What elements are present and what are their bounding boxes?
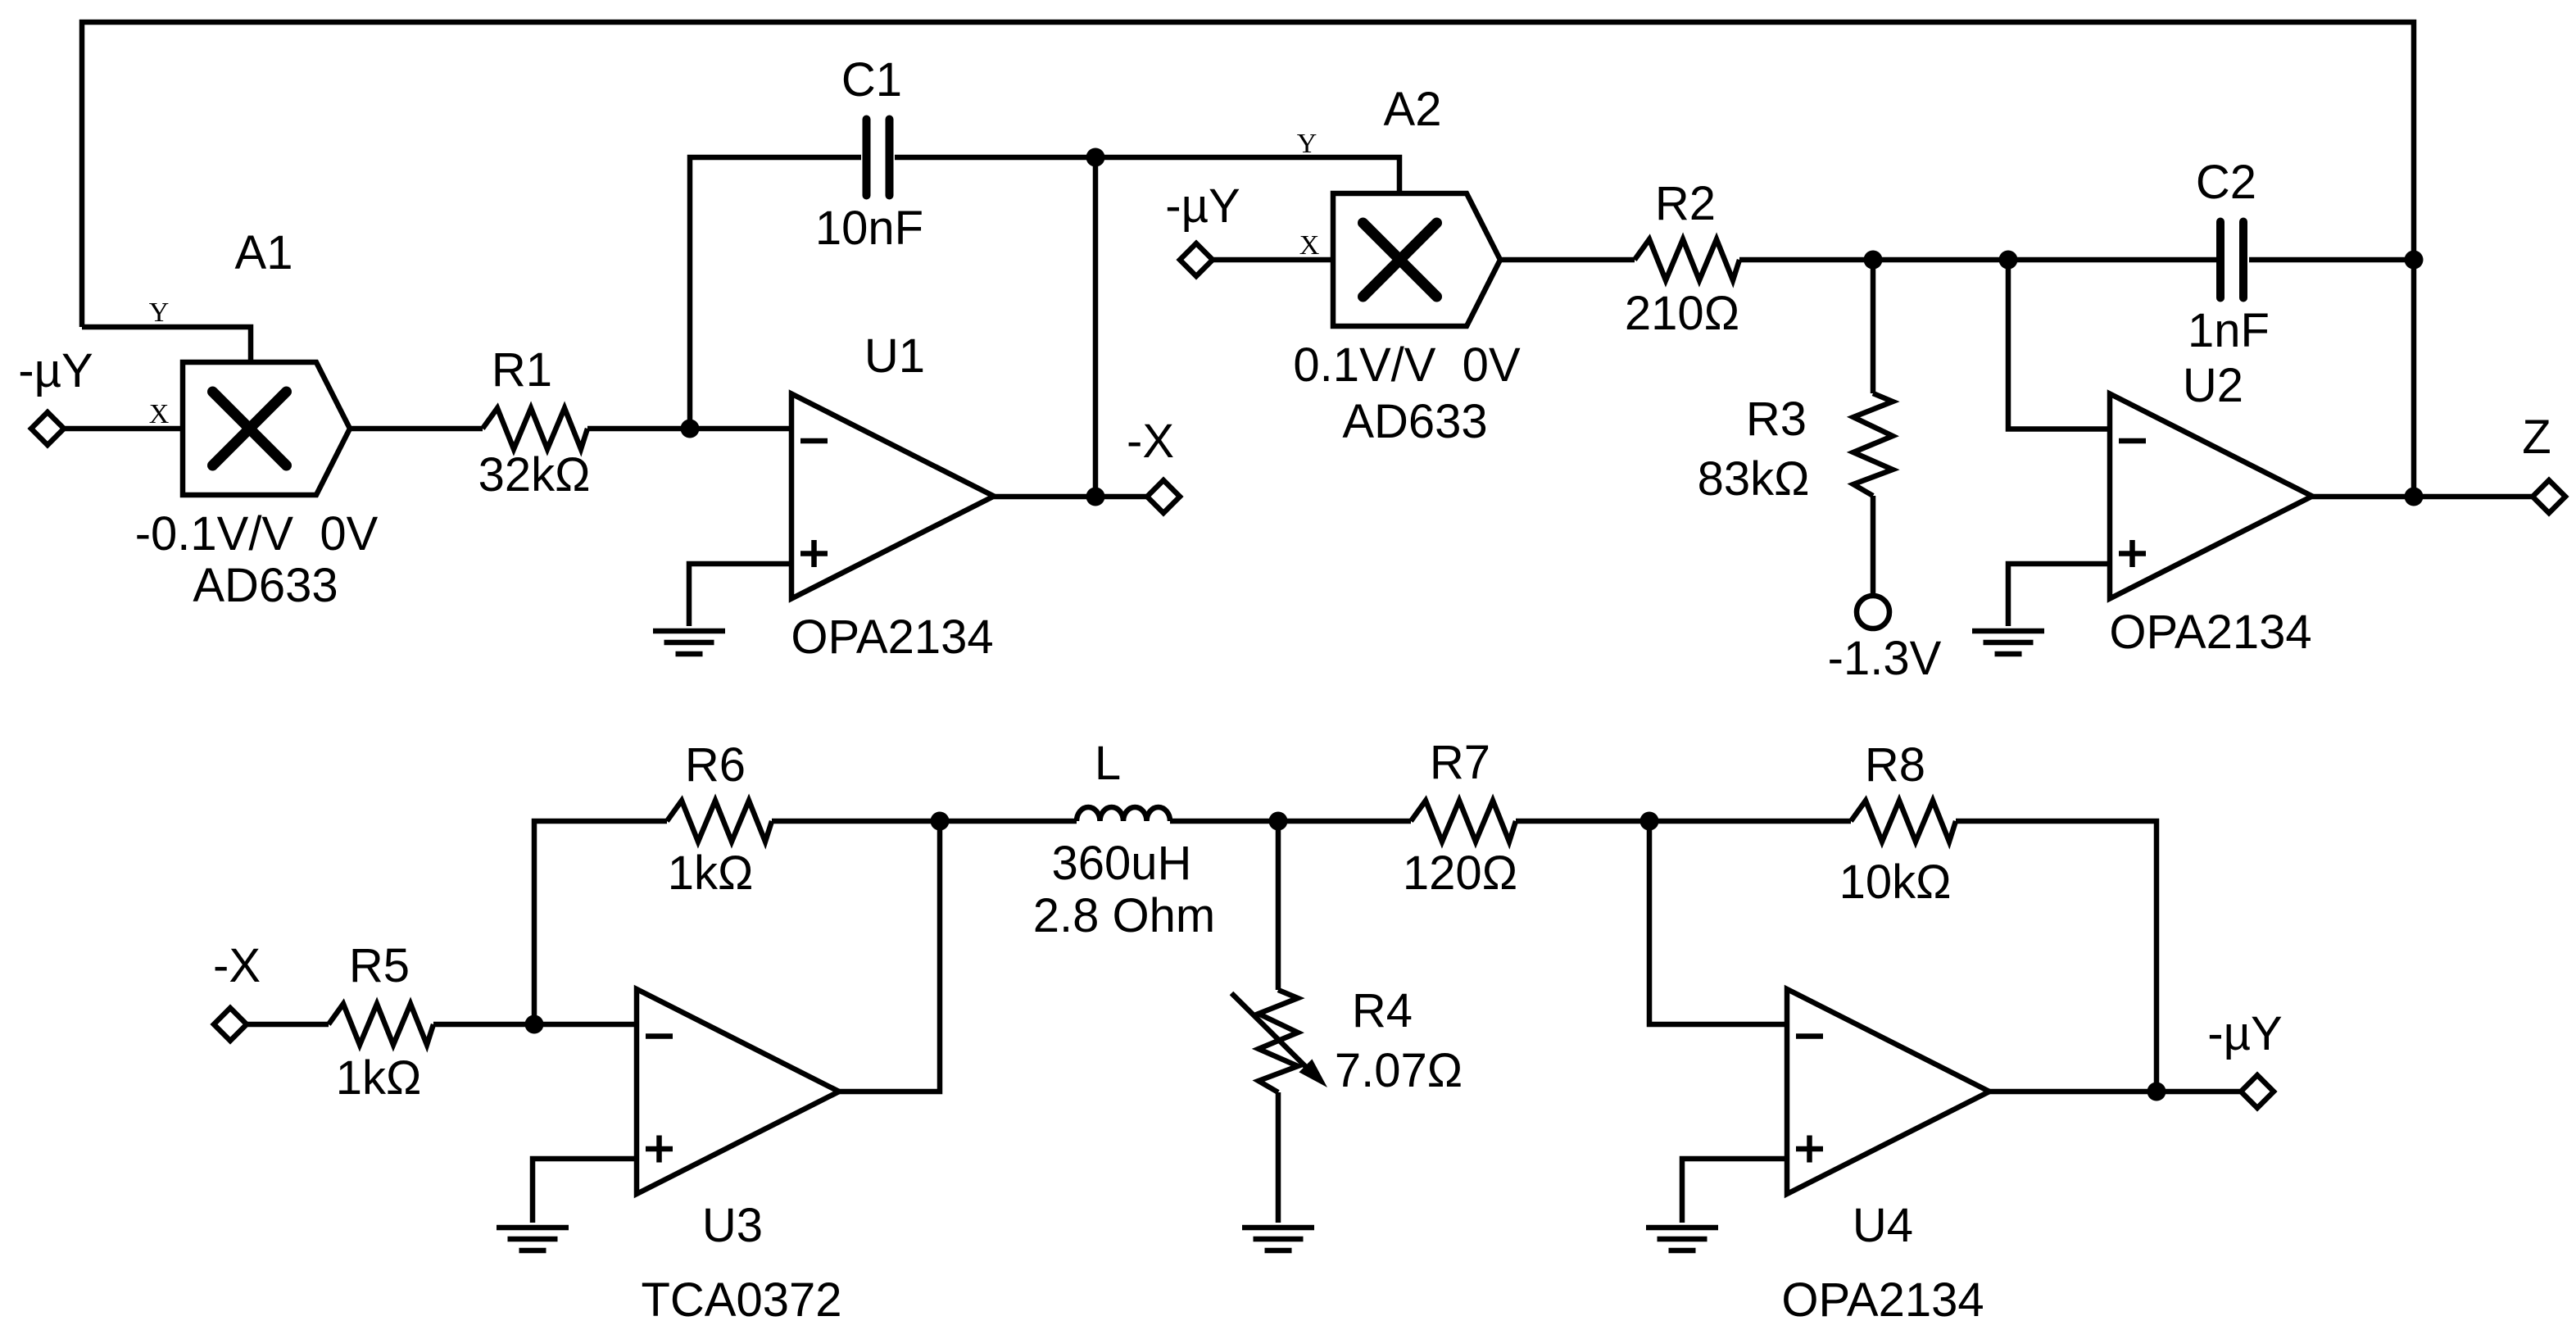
wire C2 to feedback loop — [2249, 257, 2414, 263]
svg-text:AD633: AD633 — [193, 559, 338, 612]
resistor R2 — [1635, 239, 1739, 280]
svg-text:TCA0372: TCA0372 — [641, 1273, 841, 1327]
ground (U1) — [653, 631, 725, 654]
svg-text:-X: -X — [1127, 415, 1174, 468]
junction -X node — [1086, 488, 1105, 506]
svg-text:R3: R3 — [1746, 393, 1807, 446]
wire R3 to -1.3V terminal — [1871, 496, 1876, 596]
wire A2 output — [1499, 257, 1635, 263]
svg-text:-X: -X — [213, 939, 261, 992]
junction R1/C1/U1- — [681, 420, 700, 438]
svg-text:OPA2134: OPA2134 — [2109, 606, 2311, 659]
svg-text:-1.3V: -1.3V — [1828, 632, 1942, 685]
wire C1 junction to A2 Y input — [1095, 157, 1399, 193]
op-amp U4 — [1787, 989, 1989, 1194]
op-amp U2 — [2110, 394, 2312, 599]
svg-text:C2: C2 — [2196, 156, 2256, 209]
terminal -µY (output) — [2241, 1075, 2274, 1108]
svg-text:A1: A1 — [235, 226, 293, 279]
junction -µY output node — [2147, 1083, 2166, 1101]
svg-text:83kΩ: 83kΩ — [1698, 452, 1810, 506]
wire R6 to inductor — [772, 819, 1077, 824]
variable resistor R4 — [1259, 990, 1298, 1092]
svg-text:X: X — [1299, 230, 1320, 261]
wire U3 output — [837, 821, 940, 1092]
terminal -X (input) — [214, 1008, 247, 1041]
svg-text:X: X — [149, 399, 170, 429]
svg-text:C1: C1 — [841, 53, 902, 107]
multiplier A1 — [183, 362, 350, 495]
wire R2 to C2 — [1739, 257, 2217, 263]
ground (U3) — [497, 1228, 569, 1250]
capacitor C1 — [867, 120, 890, 196]
wire C1 feedback branch (left) — [690, 157, 861, 429]
svg-text:R7: R7 — [1430, 736, 1490, 789]
resistor R3 — [1853, 393, 1893, 496]
svg-text:2.8 Ohm: 2.8 Ohm — [1033, 889, 1215, 942]
svg-text:U3: U3 — [702, 1199, 763, 1252]
svg-text:R1: R1 — [492, 343, 552, 397]
wire R8 to output node — [1956, 821, 2156, 1092]
svg-text:120Ω: 120Ω — [1403, 847, 1517, 900]
junction Z node — [2405, 488, 2424, 506]
junction U2 inverting branch — [1999, 251, 2018, 270]
wire U3 non-inverting input — [533, 1159, 637, 1223]
junction L/R4/R7 — [1269, 812, 1288, 831]
terminal -X (U1 output) — [1147, 480, 1180, 513]
wire R4 to ground — [1276, 1092, 1281, 1223]
multiplier A2 — [1333, 193, 1500, 326]
svg-text:U1: U1 — [864, 329, 925, 383]
resistor R8 — [1851, 801, 1956, 842]
svg-text:R8: R8 — [1865, 738, 1925, 792]
wire A2 X input — [1213, 257, 1333, 263]
svg-text:R6: R6 — [685, 738, 746, 792]
svg-text:AD633: AD633 — [1342, 395, 1487, 448]
wire R7 to R8 — [1516, 819, 1851, 824]
junction C1 right — [1086, 148, 1105, 167]
wire A1 output — [350, 426, 483, 432]
svg-text:R4: R4 — [1352, 984, 1413, 1037]
resistor R1 — [483, 408, 587, 449]
wire A1 Y input — [82, 327, 251, 361]
svg-text:U4: U4 — [1853, 1199, 1913, 1252]
wire U2 inverting branch — [2008, 260, 2110, 429]
svg-text:L: L — [1095, 737, 1121, 790]
wire -X to R5 — [247, 1022, 329, 1028]
wire U2 output — [2312, 494, 2533, 500]
terminal -µY (A1 input) — [31, 412, 64, 445]
wire U1 output — [994, 494, 1147, 500]
svg-text:Y: Y — [1297, 129, 1317, 159]
wire R6 feedback branch — [534, 821, 667, 1024]
resistor R5 — [329, 1004, 433, 1045]
terminal -1.3V — [1857, 596, 1889, 629]
svg-text:210Ω: 210Ω — [1625, 287, 1739, 340]
ground (U4) — [1646, 1228, 1718, 1250]
wire U2 non-inverting input — [2008, 564, 2110, 626]
svg-text:-µY: -µY — [1165, 179, 1240, 233]
junction C2/feedback loop — [2405, 251, 2424, 270]
wire U4 non-inverting input — [1682, 1159, 1787, 1223]
svg-text:U2: U2 — [2183, 359, 2243, 412]
wire U4 inverting branch — [1649, 821, 1787, 1024]
svg-text:7.07Ω: 7.07Ω — [1335, 1044, 1463, 1097]
wire C1 to -X node — [895, 157, 1095, 497]
wire R3 top lead — [1871, 260, 1876, 393]
wire A1 X input — [64, 426, 183, 432]
wire U1 non-inverting input — [689, 564, 791, 626]
op-amp U1 — [791, 394, 994, 599]
wire R1 to U1 inverting input — [587, 426, 791, 432]
svg-text:R2: R2 — [1655, 177, 1716, 230]
arrow of variable resistor R4 — [1231, 993, 1327, 1087]
wire U4 output — [1989, 1089, 2241, 1095]
svg-text:360uH: 360uH — [1052, 837, 1192, 890]
junction R7/R8/U4 inverting — [1640, 812, 1659, 831]
wire R4 top lead — [1276, 821, 1281, 990]
wire R5 to U3 inverting input — [433, 1022, 637, 1028]
junction R3 top — [1864, 251, 1883, 270]
junction U3 inverting node — [525, 1015, 544, 1034]
svg-text:R5: R5 — [349, 939, 410, 992]
capacitor C2 — [2220, 222, 2243, 298]
terminal Z — [2533, 480, 2565, 513]
junction U3 output/R6/L — [931, 812, 950, 831]
svg-text:32kΩ: 32kΩ — [478, 448, 591, 502]
svg-text:1kΩ: 1kΩ — [336, 1051, 422, 1105]
svg-text:0.1V/V 0V: 0.1V/V 0V — [1293, 338, 1521, 392]
svg-text:Z: Z — [2522, 411, 2551, 464]
svg-text:A2: A2 — [1384, 83, 1442, 136]
svg-text:-µY: -µY — [2207, 1007, 2282, 1060]
resistor R6 — [667, 801, 772, 842]
svg-text:10nF: 10nF — [815, 202, 923, 255]
svg-text:-0.1V/V 0V: -0.1V/V 0V — [135, 507, 379, 561]
svg-text:-µY: -µY — [18, 344, 93, 397]
wire L to R7 — [1170, 819, 1411, 824]
op-amp U3 — [637, 989, 839, 1194]
svg-text:10kΩ: 10kΩ — [1839, 856, 1952, 909]
svg-text:1kΩ: 1kΩ — [668, 847, 754, 900]
inductor L — [1077, 807, 1170, 821]
terminal -µY (A2 input) — [1180, 243, 1213, 276]
ground (U2) — [1972, 631, 2044, 654]
ground (R4) — [1242, 1228, 1314, 1250]
resistor R7 — [1411, 801, 1516, 842]
svg-text:OPA2134: OPA2134 — [791, 610, 993, 664]
wire Z feedback loop (top) — [82, 22, 2414, 497]
svg-text:OPA2134: OPA2134 — [1781, 1273, 1984, 1327]
svg-text:1nF: 1nF — [2188, 304, 2270, 357]
svg-text:Y: Y — [149, 297, 170, 328]
